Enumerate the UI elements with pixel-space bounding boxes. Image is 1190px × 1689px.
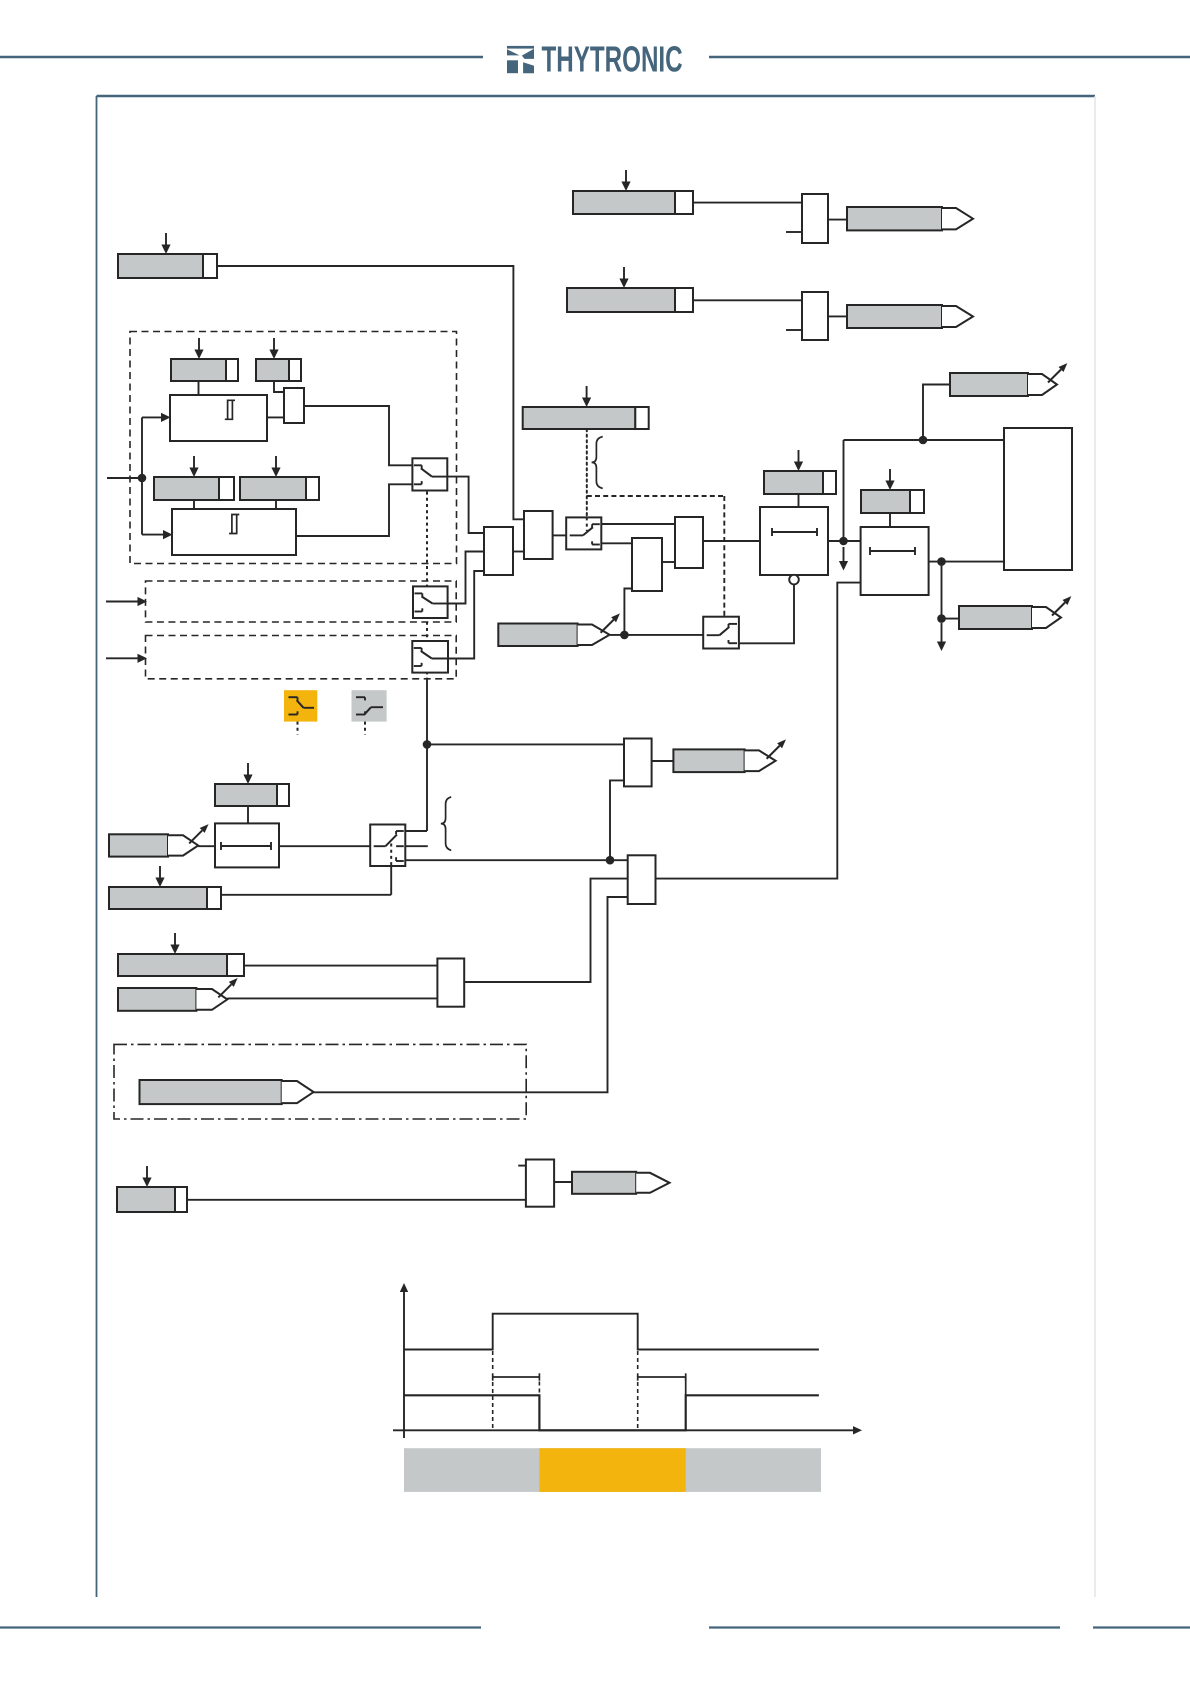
svg-text:THYTRONIC: THYTRONIC [542, 40, 683, 80]
